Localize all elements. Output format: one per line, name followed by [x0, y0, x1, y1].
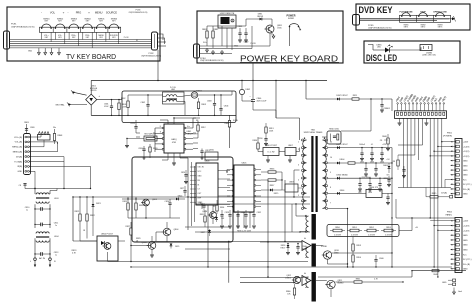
pin cn801-6	[416, 112, 418, 115]
svg-text:KEY2: KEY2	[421, 26, 426, 28]
pin u805 L2	[232, 174, 234, 176]
svg-text:5Vs: 5Vs	[203, 42, 206, 44]
transistor Q811	[327, 280, 335, 288]
pin j801-2	[41, 133, 43, 135]
svg-text:C826: C826	[181, 172, 185, 174]
ic U807 box	[285, 148, 296, 156]
svg-text:0.33 5W: 0.33 5W	[334, 234, 341, 236]
pin u805 R4	[254, 185, 256, 187]
pin u805 R3	[254, 179, 256, 181]
wire pkb bus	[200, 45, 271, 47]
switch SW801 VOL+	[42, 24, 51, 28]
wire choke out	[181, 95, 192, 97]
pin u805 R5	[254, 190, 256, 192]
opto transistor	[104, 243, 111, 250]
diode D827	[209, 229, 211, 230]
wire cn801 d9	[437, 118, 439, 277]
pin u805 L8	[232, 206, 234, 208]
svg-text:C832: C832	[257, 212, 261, 214]
wire q881	[266, 18, 272, 20]
gnd sym bottom right	[453, 288, 455, 291]
pin p802-6	[456, 244, 459, 247]
transformer T801 left winding	[303, 140, 307, 208]
svg-text:TV KEY BOARD: TV KEY BOARD	[66, 52, 116, 61]
pin p802-9	[456, 258, 459, 261]
T802 winding top	[306, 216, 309, 232]
svg-text:C803: C803	[207, 101, 212, 103]
wire ic link h	[226, 170, 228, 173]
wire switch drop	[108, 32, 110, 39]
lead cn801-10	[431, 104, 433, 111]
capacitor C803	[214, 95, 216, 103]
power switch SW882	[289, 26, 291, 28]
wire p803 r2	[29, 142, 57, 144]
pin cn801-1	[397, 112, 399, 115]
svg-text:R837: R837	[270, 185, 275, 187]
pin p801-4	[456, 155, 459, 158]
resistor R837	[268, 179, 276, 181]
dvd switch band	[400, 15, 451, 22]
wire switch drop	[54, 32, 56, 39]
svg-text:CN(POF20B/40/20-93-Y0): CN(POF20B/40/20-93-Y0)	[368, 28, 392, 30]
capacitor C801	[111, 100, 113, 106]
svg-text:D808: D808	[383, 165, 388, 167]
svg-text:9: 9	[330, 172, 331, 174]
pin u805 L4	[232, 185, 234, 187]
wire switch drop	[82, 32, 84, 39]
wire pkb loop	[289, 27, 291, 47]
diode D821	[92, 197, 94, 204]
capacitor C820	[143, 146, 145, 149]
lead cn801-12	[439, 104, 441, 111]
svg-text:N.C: N.C	[463, 254, 467, 256]
svg-text:C831: C831	[249, 212, 253, 214]
wire cn801 d2	[406, 118, 408, 187]
choke L803	[36, 193, 49, 195]
wire snubber	[322, 136, 327, 138]
svg-text:KEY3: KEY3	[438, 26, 443, 28]
dvd key outline	[356, 4, 470, 30]
choke L804	[36, 232, 49, 234]
svg-text:12: 12	[330, 142, 332, 144]
svg-text:Gnd: Gnd	[458, 291, 462, 293]
cap bank row1	[361, 148, 363, 153]
capacitor C810	[35, 208, 41, 210]
capacitor C809	[26, 127, 28, 134]
svg-text:MENU-(B): MENU-(B)	[13, 152, 23, 154]
svg-text:C809: C809	[30, 127, 35, 129]
pin p801-9	[456, 178, 459, 181]
wire bus top	[91, 80, 327, 82]
pin p802-10	[456, 263, 459, 266]
wire term arrows	[34, 265, 36, 268]
svg-text:1u: 1u	[26, 209, 28, 211]
svg-text:D803 FR107: D803 FR107	[336, 144, 348, 146]
control block box	[132, 157, 233, 242]
lead cn801-11	[435, 104, 437, 111]
wire clusterA	[122, 198, 170, 200]
svg-text:BD880: BD880	[338, 283, 344, 285]
svg-text:C804: C804	[224, 106, 229, 108]
svg-text:DVD KEY: DVD KEY	[359, 5, 393, 15]
wire c806 bottom	[242, 100, 253, 102]
svg-text:GND: GND	[463, 240, 468, 242]
boxed resistor R817	[144, 136, 157, 141]
pin p801-6	[456, 164, 459, 167]
wire out5	[336, 281, 355, 283]
wire sec row1	[328, 147, 337, 149]
svg-text:C824: C824	[165, 201, 170, 203]
wire chain link	[352, 237, 354, 241]
svg-text:D827: D827	[201, 232, 205, 234]
svg-text:OPEN/CLOSE: OPEN/CLOSE	[433, 12, 447, 14]
pin u805 L5	[232, 190, 234, 192]
cap bank row2	[365, 163, 367, 168]
disc led outline	[364, 41, 460, 63]
svg-text:R830: R830	[253, 140, 258, 142]
wire p803 r1	[29, 135, 41, 138]
T802 winding mid	[306, 247, 309, 257]
transistor Q881	[266, 25, 274, 33]
snubber box	[327, 131, 341, 144]
pin p803-7	[25, 166, 27, 168]
resistor R821	[79, 197, 81, 214]
svg-text:R812: R812	[201, 127, 206, 129]
wire vert 268	[267, 180, 269, 277]
wire rail 241	[150, 241, 302, 243]
svg-text:U810: U810	[209, 150, 214, 152]
svg-text:GND: GND	[463, 194, 468, 196]
svg-text:0.33 5W: 0.33 5W	[351, 234, 358, 236]
svg-text:7: 7	[330, 202, 331, 204]
wire cn801 d3	[410, 118, 412, 187]
svg-text:C829: C829	[233, 212, 237, 214]
svg-text:0765: 0765	[172, 142, 176, 144]
wire bridge top riser	[90, 81, 92, 95]
wire u801 top	[173, 118, 175, 124]
pin u801 R3	[184, 138, 186, 140]
svg-text:L806 3T3: L806 3T3	[370, 187, 378, 189]
svg-text:R827: R827	[126, 226, 131, 228]
transformer T801 right winding	[323, 140, 327, 208]
lead cn801-1	[397, 104, 399, 111]
resistor R851 B+	[350, 229, 359, 232]
wire cn801 d5	[418, 118, 420, 160]
lead cn801-3	[404, 104, 406, 111]
svg-text:-: -	[41, 11, 42, 15]
switch dvd PLAY/PAUSE	[402, 13, 410, 17]
svg-text:R833: R833	[200, 214, 205, 216]
switch SW806 SOURCE	[109, 24, 118, 28]
resistor R852 B+	[367, 229, 376, 232]
pin p801-5	[456, 159, 459, 162]
transistor Q803	[143, 199, 150, 206]
wire sec bus v1	[391, 148, 393, 267]
capacitor C802	[147, 95, 149, 104]
transistor Q806	[210, 212, 217, 219]
svg-text:5V (CTL): 5V (CTL)	[463, 259, 472, 261]
pin u805 L1	[232, 169, 234, 171]
pin u801 R2	[184, 132, 186, 134]
diode D828	[216, 216, 218, 217]
wire rail 204	[195, 203, 310, 205]
pin p802-2	[456, 224, 459, 227]
svg-text:10: 10	[330, 157, 332, 159]
svg-text:VOL-(B): VOL-(B)	[15, 142, 23, 144]
svg-text:R853: R853	[356, 245, 361, 247]
svg-text:C833: C833	[370, 162, 374, 164]
svg-text:4: 4	[298, 180, 299, 182]
pin u801 R4	[184, 143, 186, 145]
resistor R882	[212, 31, 214, 38]
box B+ resistors	[327, 225, 399, 237]
svg-text:0.1: 0.1	[371, 144, 373, 146]
transformer T801 core	[311, 136, 313, 212]
pin p802-8	[456, 253, 459, 256]
connector PC84 left	[194, 44, 200, 58]
T802 winding low	[306, 277, 309, 287]
transistor Q812	[293, 276, 300, 283]
svg-text:1u: 1u	[55, 254, 57, 256]
svg-text:D806: D806	[340, 190, 345, 192]
svg-text:P802: P802	[447, 212, 453, 214]
wire switch drop	[96, 32, 98, 39]
wire u801 right	[192, 118, 194, 128]
svg-text:GND: GND	[463, 245, 468, 247]
wire p803 r7	[29, 166, 90, 188]
svg-text:P-ON: P-ON	[251, 43, 257, 45]
wire tv-to-bus link	[157, 50, 159, 81]
svg-text:C840: C840	[379, 258, 384, 260]
svg-text:+12(V): +12(V)	[463, 230, 470, 232]
svg-text:1: 1	[298, 142, 299, 144]
wire sec row3	[328, 177, 337, 179]
pin u805 R6	[254, 195, 256, 197]
svg-text:R846: R846	[433, 274, 437, 276]
capacitor C882	[244, 32, 247, 34]
svg-text:+12(V): +12(V)	[463, 226, 470, 228]
pin p802-4	[456, 234, 459, 237]
wire prim drop	[370, 99, 372, 131]
resistor R830	[257, 143, 259, 149]
connector P803	[24, 134, 31, 175]
svg-text:GND: GND	[18, 171, 23, 173]
capacitor C824	[169, 199, 171, 203]
resistor R813	[265, 127, 267, 133]
svg-text:PRG: PRG	[76, 11, 82, 15]
pin u805 L3	[232, 179, 234, 181]
wire sec branch	[392, 217, 396, 219]
resistor R827	[130, 228, 132, 235]
pin cn801-2	[400, 112, 402, 115]
svg-text:GND: GND	[463, 235, 468, 237]
ground tv	[58, 48, 60, 51]
pin u805 R1	[254, 169, 256, 171]
connector P802 box	[455, 218, 462, 273]
svg-text:2: 2	[298, 149, 299, 151]
pin p803-4	[25, 151, 27, 153]
connector PC85	[353, 15, 360, 26]
zener D809	[384, 139, 388, 141]
ic U809 box	[285, 184, 298, 192]
wire bridge out	[97, 99, 122, 101]
switch SW802 VOL-	[55, 24, 64, 28]
wire cn801 d4	[414, 118, 416, 155]
pin u801 L2	[162, 132, 164, 134]
dvd gnd arrow	[449, 18, 452, 20]
pin cn801-4	[408, 112, 410, 115]
wire tv right link	[158, 34, 164, 40]
junction dots rails	[207, 266, 208, 267]
wire prim top	[306, 98, 337, 100]
svg-text:D807 FR107: D807 FR107	[336, 95, 348, 97]
diode D824	[176, 198, 178, 201]
svg-text:R811: R811	[353, 95, 357, 97]
amp triangle 2	[302, 276, 311, 286]
pin u801 R5	[184, 148, 186, 150]
pin u801 R1	[184, 127, 186, 129]
wire tv bus	[10, 45, 152, 47]
resistor R826	[135, 203, 137, 210]
svg-text:KA5Q: KA5Q	[171, 138, 177, 141]
pin j801-4	[47, 133, 49, 135]
wire filt low	[34, 238, 36, 258]
switch band	[40, 27, 121, 32]
wire filt mid	[34, 204, 36, 228]
svg-text:R809: R809	[24, 122, 29, 124]
resistor R845	[426, 196, 430, 198]
wire fb vert	[72, 197, 74, 241]
transistor Q810	[323, 251, 331, 259]
capacitor C816	[265, 136, 267, 138]
wire out2	[316, 245, 323, 247]
wire out3	[301, 281, 302, 283]
capacitor C829b	[203, 203, 205, 205]
svg-text:1u: 1u	[55, 225, 57, 227]
pin p801-7	[456, 169, 459, 172]
pin p803-8	[25, 170, 27, 172]
cap bank row3	[359, 178, 361, 183]
lead cn801-5	[412, 104, 414, 111]
wire rail 267	[131, 266, 452, 268]
svg-text:P-COIL: P-COIL	[170, 87, 176, 89]
wire fb right	[281, 172, 283, 190]
svg-text:RT801: RT801	[196, 91, 202, 93]
pin p801-11	[456, 188, 459, 191]
wire rail 2707	[412, 270, 466, 272]
wire u804 drops	[201, 205, 203, 209]
varistor D802	[239, 89, 244, 94]
wire ic link v2	[191, 162, 193, 226]
pin u804 R1	[218, 170, 230, 172]
resistor R853 B+	[384, 229, 393, 232]
wire rail 197	[73, 196, 310, 198]
svg-text:DISC LED: DISC LED	[366, 53, 397, 63]
svg-text:D825: D825	[274, 193, 279, 195]
diode D881	[260, 18, 262, 21]
pin u804 R4	[218, 195, 230, 197]
svg-text:R852: R852	[369, 227, 374, 229]
svg-text:5Vs: 5Vs	[53, 127, 56, 129]
wire filt rail	[35, 188, 91, 190]
svg-text:1/2W: 1/2W	[122, 106, 126, 108]
IR receiver U882	[218, 15, 236, 28]
svg-text:U882 REMOTE: U882 REMOTE	[220, 13, 235, 15]
ground tv	[44, 48, 46, 51]
wire switch drop	[68, 32, 70, 39]
svg-text:AC IN: AC IN	[39, 257, 45, 260]
wire filter top	[128, 94, 163, 96]
wire pkb top	[207, 25, 246, 27]
svg-text:R810 C810: R810 C810	[329, 129, 339, 131]
wire cn801 d1	[402, 118, 404, 187]
wire tv bus	[10, 39, 152, 41]
wire p802 topwire	[396, 198, 426, 200]
wire disc led	[373, 49, 385, 51]
wire vert 292	[291, 204, 293, 232]
resistor R846	[432, 270, 439, 272]
pin u801 L4	[162, 143, 164, 145]
wire cn801 d7	[429, 118, 431, 218]
wire bus bottom	[91, 114, 236, 116]
pin u804 R5	[218, 204, 230, 206]
transistor Q804	[163, 228, 171, 236]
connector CN885	[420, 45, 432, 51]
pin p801-2	[456, 145, 459, 148]
resistor R834	[216, 205, 218, 211]
svg-text:+12(V): +12(V)	[463, 146, 470, 148]
wire p801 links	[442, 141, 451, 143]
svg-text:C834: C834	[380, 162, 384, 164]
resistor R820	[149, 144, 151, 147]
switch SW804 PRG-	[83, 24, 92, 28]
pin p802-1	[456, 220, 459, 223]
svg-text:C835 470uF: C835 470uF	[361, 177, 370, 179]
svg-text:OSC IN: OSC IN	[198, 167, 205, 169]
svg-text:0.33 5W: 0.33 5W	[385, 234, 392, 236]
diode D826	[287, 244, 289, 245]
wire u806 wires	[258, 151, 263, 153]
svg-text:R845: R845	[432, 193, 437, 195]
wire p803 r3	[29, 140, 44, 147]
wire tv bus	[10, 47, 152, 49]
svg-text:KEY1: KEY1	[404, 26, 409, 28]
fuse F801	[229, 115, 231, 120]
svg-text:IC 1.7W: IC 1.7W	[268, 151, 275, 153]
choke L801	[166, 95, 177, 97]
svg-text:(DISC LED CN): (DISC LED CN)	[422, 55, 436, 57]
wire p802 links	[430, 220, 450, 222]
svg-text:C827: C827	[180, 188, 184, 190]
wire u801 drops	[167, 153, 169, 160]
ground tv	[51, 48, 53, 51]
power key board outline	[197, 11, 343, 63]
svg-text:R817 (BF120): R817 (BF120)	[144, 134, 156, 136]
pin p801-12	[456, 192, 459, 195]
svg-text:GND: GND	[463, 165, 468, 167]
svg-text:-: -	[68, 11, 69, 15]
svg-text:3: 3	[298, 164, 299, 166]
svg-text:C828: C828	[225, 212, 229, 214]
svg-text:FUSE: FUSE	[233, 120, 239, 122]
svg-text:U809: U809	[289, 181, 294, 183]
transistor Q805	[148, 242, 156, 250]
svg-text:GND: GND	[463, 161, 468, 163]
pin cn801-5	[412, 112, 414, 115]
svg-text:5Vs (B): 5Vs (B)	[463, 189, 470, 191]
wire p803 r8	[29, 171, 35, 188]
lead cn801-8	[424, 104, 426, 111]
